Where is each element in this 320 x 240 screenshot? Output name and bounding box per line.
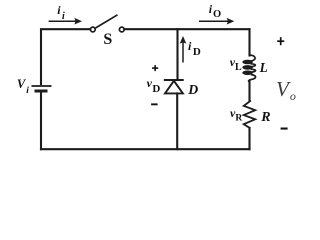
label V_o (output) (276, 77, 296, 104)
label i_O (209, 2, 222, 21)
label D (188, 82, 198, 98)
wire: diode branch upper (node to cathode) (176, 29, 178, 80)
current arrow i_D (180, 36, 187, 63)
label - (diode polarity) (151, 103, 158, 105)
label V_i (source) (17, 77, 29, 96)
wire: diode branch lower (anode to bottom rail) (176, 93, 178, 149)
label v_L (230, 55, 242, 73)
label + (output polarity) (277, 37, 284, 45)
inductor L coil (242, 55, 255, 82)
wire: bottom rail (41, 148, 250, 150)
label S (103, 31, 112, 49)
wire: right branch top (corner to inductor) (248, 29, 250, 55)
label - (output polarity) (281, 128, 288, 130)
resistor R zigzag (244, 101, 256, 129)
wire: right branch below resistor (248, 128, 250, 149)
wire: left branch below battery (40, 92, 42, 150)
label R (261, 110, 270, 126)
wire: top-left segment from source to switch (41, 29, 90, 84)
label L (260, 60, 268, 76)
battery source Vi plates (32, 86, 52, 91)
label v_D (147, 76, 161, 95)
current arrow i_i (49, 18, 82, 25)
wire: top segment from switch to top-right corner (124, 28, 249, 30)
current arrow i_O (199, 18, 234, 25)
diode D: cathode bar (164, 79, 184, 81)
label v_R (230, 106, 242, 124)
label i_i (57, 3, 65, 22)
label i_D (188, 39, 201, 58)
label + (diode polarity) (152, 65, 158, 71)
wire: right branch between inductor and resistor (248, 82, 250, 101)
diode D: triangle (anode, pointing up) (165, 81, 183, 94)
switch S (90, 15, 124, 32)
